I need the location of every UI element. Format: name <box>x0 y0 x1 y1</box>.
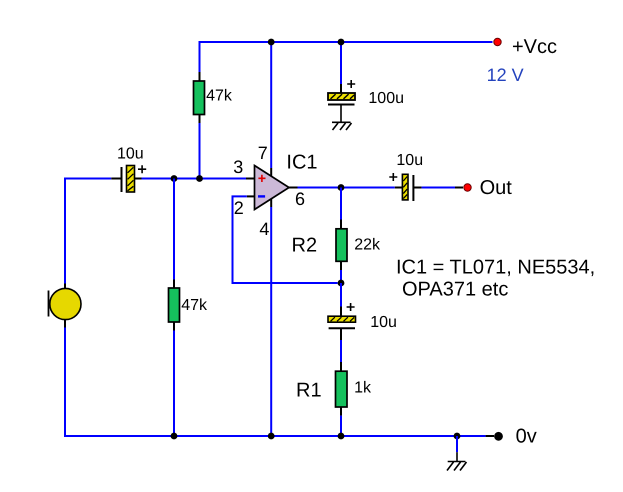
svg-text:Out: Out <box>480 177 513 199</box>
wire: rail to 100u <box>340 42 342 84</box>
capacitor C 100u positive plate <box>328 93 355 100</box>
wire: ground lead <box>456 452 458 461</box>
svg-text:22k: 22k <box>354 237 381 254</box>
wire: 10u out left lead <box>395 187 403 189</box>
wire: 0v terminal lead <box>486 435 494 437</box>
wire: 100u top lead <box>340 84 342 93</box>
svg-text:OPA371 etc: OPA371 etc <box>402 279 508 301</box>
wire: mic bottom lead <box>64 320 66 328</box>
capacitor 10u input positive plate <box>127 166 135 193</box>
wire: Out terminal lead <box>455 187 463 189</box>
capacitor 10u out negative plate <box>412 175 414 201</box>
node: 0v rail R1 junction <box>338 433 345 440</box>
wire: 10u fb to R1 <box>340 340 342 362</box>
terminal +Vcc (red dot) <box>494 38 501 45</box>
svg-text:10u: 10u <box>396 152 423 169</box>
wire: R2 top lead <box>340 220 342 230</box>
microphone MIC body <box>50 288 81 319</box>
wire: mic top lead <box>64 284 66 290</box>
wire: 10u out right lead <box>413 187 421 189</box>
wire: 47k bottom lead <box>199 115 201 124</box>
wire: input corner down to microphone <box>64 178 66 284</box>
wire: 10u input right lead <box>135 178 142 180</box>
wire: R1 to 0v rail <box>340 416 342 436</box>
capacitor 10u out positive plate <box>402 174 408 200</box>
op-amp U IC1 triangle <box>255 166 290 210</box>
wire: feedback run to pin 2 <box>233 196 338 283</box>
wire: R1 bottom lead <box>340 407 342 416</box>
op-amp non-inverting plus mark <box>258 175 265 182</box>
wire: 47k to input node <box>199 123 201 179</box>
wire: 10u fb bottom lead <box>340 328 342 340</box>
svg-text:47k: 47k <box>181 297 208 314</box>
wire: 10u fb top lead <box>340 307 342 317</box>
wire: pin 4 down to 0v rail <box>270 207 272 436</box>
svg-text:3: 3 <box>233 157 243 177</box>
wire: rail to op-amp pin 7 <box>270 42 272 168</box>
svg-text:47k: 47k <box>206 88 233 105</box>
wire: +Vcc top rail <box>200 41 493 43</box>
wire: input corner to 10u cap <box>65 178 111 180</box>
svg-text:12 V: 12 V <box>487 65 524 85</box>
wire: pin 2 stub <box>247 195 255 197</box>
ground (below 100u) <box>332 122 352 130</box>
wire: pin 3 stub <box>246 178 255 180</box>
op-amp inverting minus mark <box>258 195 265 197</box>
wire: R1 top lead <box>340 362 342 372</box>
svg-text:IC1 = TL071, NE5534,: IC1 = TL071, NE5534, <box>396 257 595 279</box>
capacitor 10u out plus sign <box>389 173 397 181</box>
wire: 10u input left lead <box>111 178 120 180</box>
resistor 47k (lower bias) <box>169 288 180 322</box>
svg-text:+Vcc: +Vcc <box>512 36 557 58</box>
wire: output run to 10u out <box>298 187 395 189</box>
node: 0v rail 47k junction <box>171 433 178 440</box>
capacitor 10u fb negative plate <box>329 327 355 329</box>
capacitor 10u fb positive plate <box>328 316 356 322</box>
resistor 47k (top bias) <box>194 81 205 115</box>
node: input junction with 47k lower <box>171 175 178 182</box>
wire: pin 6 output stub <box>289 187 298 189</box>
node: rail junction pin7 branch <box>268 39 275 46</box>
wire: R2 to feedback node <box>340 270 342 283</box>
svg-text:R1: R1 <box>296 380 322 402</box>
svg-text:6: 6 <box>295 189 305 209</box>
wire: pin 7 lead <box>270 168 272 178</box>
wire: 47k top lead <box>199 72 201 82</box>
wire: 47k lower bottom lead <box>173 322 175 331</box>
microphone MIC front bar <box>48 291 50 317</box>
svg-text:7: 7 <box>258 143 268 163</box>
wire: rail corner down to R 47k top <box>199 41 201 72</box>
svg-text:0v: 0v <box>516 425 537 447</box>
node: feedback junction <box>338 280 345 287</box>
wire: pin 4 lead <box>270 198 272 207</box>
terminal Out (red dot) <box>464 184 471 191</box>
ground (bottom right) <box>447 462 467 471</box>
wire: 47k lower top lead <box>173 280 175 289</box>
wire: node down to 47k lower <box>173 179 175 280</box>
svg-text:R2: R2 <box>292 234 318 256</box>
wire: 100u to ground lead <box>340 105 342 123</box>
wire: R2 bottom lead <box>340 261 342 270</box>
svg-text:10u: 10u <box>117 145 144 162</box>
wire: node down to 10u fb cap <box>340 283 342 307</box>
resistor R2 22k <box>336 229 347 261</box>
capacitor C 100u negative plate <box>328 104 355 106</box>
wire: 0v rail to ground stem <box>456 436 458 452</box>
wire: to Out terminal <box>422 187 455 189</box>
capacitor 10u input negative plate <box>121 167 123 192</box>
node: input junction with 47k upper <box>196 175 203 182</box>
node: rail junction 100u branch <box>338 39 345 46</box>
svg-text:1k: 1k <box>354 380 372 397</box>
svg-text:IC1: IC1 <box>286 151 317 173</box>
node: 0v rail pin4 junction <box>268 433 275 440</box>
svg-text:2: 2 <box>234 198 244 218</box>
resistor R1 1k <box>336 371 348 407</box>
capacitor 10u fb plus sign <box>347 303 355 311</box>
wire: input node run <box>142 178 247 180</box>
capacitor C 100u plus sign <box>347 80 355 88</box>
svg-text:100u: 100u <box>368 90 404 107</box>
node: 0v rail ground junction <box>454 433 461 440</box>
wire: 47k lower to 0v rail <box>173 331 175 437</box>
wire: mic to 0v rail <box>65 328 486 438</box>
node: output junction R2 <box>338 184 345 191</box>
capacitor 10u input plus sign <box>138 165 146 173</box>
svg-text:4: 4 <box>259 219 269 239</box>
wire: output node down to R2 <box>340 188 342 220</box>
terminal 0v (black dot) <box>494 432 503 441</box>
svg-text:10u: 10u <box>370 314 397 331</box>
